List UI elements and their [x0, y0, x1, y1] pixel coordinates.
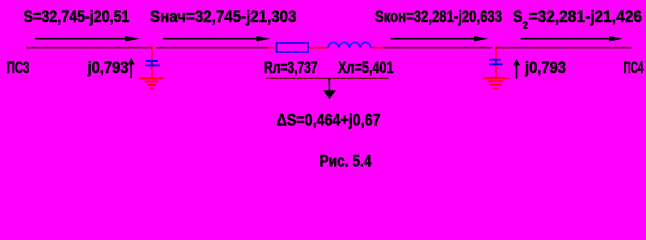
- svg-text:Rл=3,737: Rл=3,737: [264, 58, 318, 77]
- svg-text:j0,793: j0,793: [87, 58, 129, 77]
- svg-text:S=32,745-j20,51: S=32,745-j20,51: [24, 7, 130, 26]
- svg-text:S: S: [513, 7, 523, 26]
- svg-text:Xл=5,401: Xл=5,401: [338, 58, 394, 77]
- svg-text:Sнач=32,745-j21,303: Sнач=32,745-j21,303: [150, 7, 297, 26]
- svg-text:Рис. 5.4: Рис. 5.4: [320, 152, 373, 171]
- svg-text:ПС3: ПС3: [7, 58, 30, 77]
- svg-text:ΔS=0,464+j0,67: ΔS=0,464+j0,67: [277, 110, 381, 129]
- svg-text:ПС4: ПС4: [624, 58, 644, 77]
- svg-text:=32,281-j21,426: =32,281-j21,426: [529, 7, 643, 26]
- svg-text:j0,793: j0,793: [524, 58, 566, 77]
- svg-text:Sкон=32,281-j20,633: Sкон=32,281-j20,633: [375, 7, 502, 26]
